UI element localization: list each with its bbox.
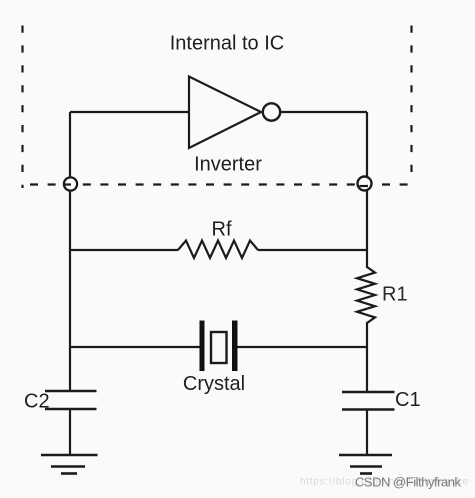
ground left [41,455,98,474]
node right pin circle [358,177,372,191]
wire right rail lower [366,322,368,392]
svg-text:CSDN @Filthyfrank: CSDN @Filthyfrank [355,475,462,490]
inverter output bubble [263,103,280,120]
svg-text:Crystal: Crystal [183,373,245,395]
capacitor C2 top plate [45,390,97,392]
wire left rail [69,112,71,391]
capacitor C1 top plate [342,391,395,393]
op-amp inverter triangle [189,77,261,149]
wire crystal right [238,346,368,348]
wire crystal left [70,346,200,348]
crystal body [211,332,227,363]
resistor Rf [178,241,258,259]
wire right rail upper [366,112,368,268]
crystal left electrode [200,321,205,372]
dashed IC boundary left edge [21,26,23,189]
svg-text:Rf: Rf [212,219,232,241]
crystal right electrode [232,321,238,372]
wire inverter output [281,111,368,113]
wire Rf left [70,249,178,251]
dash inside right node [360,185,369,187]
wire Rf right [258,249,367,251]
wire C2 to ground [69,409,71,454]
wire inverter input [70,111,189,113]
svg-text:C1: C1 [395,389,421,411]
svg-text:Internal to IC: Internal to IC [170,33,285,55]
capacitor C1 bottom plate [342,408,395,410]
wire C1 to ground [366,410,368,455]
dashed IC boundary right edge [410,26,412,183]
capacitor C2 bottom plate [45,408,97,410]
node left pin circle [64,177,77,190]
resistor R1 [357,267,375,323]
dash inside left node [64,183,72,185]
ground right [339,455,392,474]
dashed IC boundary bottom edge [30,183,412,185]
svg-text:Inverter: Inverter [194,154,262,176]
svg-text:R1: R1 [382,284,408,306]
